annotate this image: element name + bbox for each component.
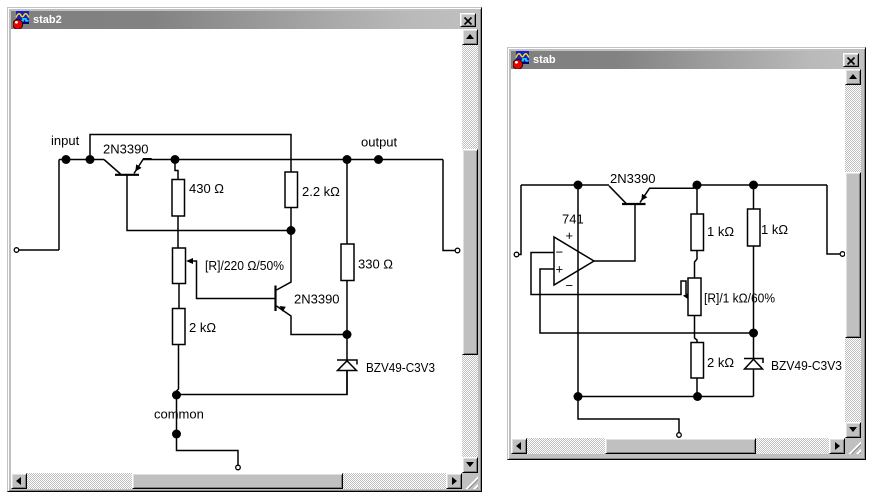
svg-text:BZV49-C3V3: BZV49-C3V3: [366, 360, 435, 375]
label Q3 2N3390: [610, 171, 656, 186]
node rail dot B: [693, 392, 702, 401]
resistor R3 2.2k: [285, 172, 298, 231]
wire supply drop through op-amp: [577, 185, 579, 397]
wire op-amp output to Q3 base: [594, 205, 635, 262]
node 430 top dot: [171, 155, 180, 164]
label 2k: [707, 355, 734, 370]
label pot R: [704, 291, 775, 306]
svg-text:[R]/220 Ω/50%: [R]/220 Ω/50%: [205, 258, 284, 273]
vertical scrollbar: [462, 29, 478, 473]
svg-text:2 kΩ: 2 kΩ: [707, 355, 734, 370]
svg-text:430 Ω: 430 Ω: [189, 181, 224, 196]
svg-text:common: common: [154, 407, 204, 422]
resistor R5 330 ohm: [341, 160, 354, 335]
vertical scrollbar: [845, 69, 861, 438]
resistor R2 430 ohm: [172, 160, 185, 249]
svg-text:2N3390: 2N3390: [610, 171, 656, 186]
wire output drop: [443, 160, 455, 251]
window stab frame: [507, 47, 866, 460]
wire inverting input lead: [531, 253, 686, 295]
wire ground stub: [578, 397, 679, 433]
svg-text:330 Ω: 330 Ω: [358, 257, 393, 272]
label pot R: [205, 258, 284, 273]
common terminal: [236, 465, 241, 470]
wire ground stub: [177, 434, 239, 465]
wire top loop from node B to 2.2k top: [90, 135, 291, 173]
label output: [361, 135, 398, 150]
label non-inverting input: [556, 262, 564, 277]
svg-text:−: −: [556, 245, 564, 260]
circuit svg left: [11, 29, 462, 472]
label 430 ohm: [189, 181, 224, 196]
ground terminal: [677, 433, 682, 438]
resistor R4 2k: [691, 343, 704, 397]
transistor Q2 2N3390: [276, 231, 348, 335]
svg-text:+: +: [566, 228, 574, 243]
label 741: [562, 212, 584, 227]
svg-text:[R]/1 kΩ/60%: [R]/1 kΩ/60%: [704, 291, 775, 306]
wire Q1 base lead: [127, 175, 291, 231]
svg-text:BZV49-C3V3: BZV49-C3V3: [771, 358, 842, 373]
node common dot 2: [172, 430, 181, 439]
svg-text:2 kΩ: 2 kΩ: [189, 320, 216, 335]
zener D1 BZV49-C3V3: [337, 335, 357, 395]
node 1k-1 dot: [693, 181, 702, 190]
svg-text:−: −: [566, 278, 574, 293]
node output dot B: [374, 155, 383, 164]
node input dot A: [62, 155, 71, 164]
wire common drop: [176, 395, 178, 434]
potentiometer R1 220 ohm: [173, 248, 276, 309]
svg-text:741: 741: [562, 212, 584, 227]
node 1k-2 dot: [749, 181, 758, 190]
wire top rail: [521, 184, 609, 186]
wire input riser: [58, 160, 60, 251]
node input dot B: [86, 155, 95, 164]
node supply dot: [574, 181, 583, 190]
label zener D1: [366, 360, 435, 375]
input terminal: [514, 252, 519, 257]
svg-text:2.2 kΩ: 2.2 kΩ: [302, 184, 340, 199]
node output dot A: [343, 155, 352, 164]
label 2k: [189, 320, 216, 335]
svg-text:+: +: [556, 262, 564, 277]
wire input rail to Q1 collector: [59, 159, 104, 161]
wire Q1 emitter rail: [144, 159, 444, 161]
transistor Q3 2N3390: [609, 185, 694, 204]
label Q2 2N3390: [294, 292, 340, 307]
wire input stub: [519, 185, 521, 255]
wire top rail right part: [697, 184, 827, 186]
label 2.2k: [302, 184, 340, 199]
wire non-inverting input lead: [540, 269, 754, 333]
label zener: [771, 358, 842, 373]
input terminal: [14, 248, 19, 253]
svg-text:output: output: [361, 135, 398, 150]
transistor Q1 2N3390: [104, 159, 151, 175]
op-amp U1 741: [554, 237, 594, 285]
svg-text:1 kΩ: 1 kΩ: [761, 222, 788, 237]
circuit svg right: [511, 69, 845, 440]
label common: [154, 407, 204, 422]
label input: [51, 133, 80, 148]
svg-text:input: input: [51, 133, 80, 148]
wire input stub to riser: [19, 249, 59, 251]
label Q1 2N3390: [103, 142, 149, 157]
node rail dot A: [574, 392, 583, 401]
node base dot: [287, 226, 296, 235]
svg-text:2N3390: 2N3390: [103, 142, 149, 157]
resistor R3 1k: [748, 185, 761, 333]
horizontal scrollbar: [11, 473, 462, 489]
label op-amp V minus: [566, 278, 574, 293]
label 1k second: [761, 222, 788, 237]
svg-text:1 kΩ: 1 kΩ: [707, 224, 734, 239]
svg-text:2N3390: 2N3390: [294, 292, 340, 307]
wiper arrow into pot: [683, 293, 689, 300]
label inverting input: [556, 245, 564, 260]
node 330 bottom dot: [343, 330, 352, 339]
resistor R4 2k: [173, 309, 186, 396]
output terminal: [840, 252, 845, 257]
label 330 ohm: [358, 257, 393, 272]
zener D1 BZV49-C3V3: [744, 333, 763, 397]
wire output drop: [827, 185, 840, 254]
node zener top dot: [749, 329, 758, 338]
wire bottom rail: [578, 396, 754, 398]
label op-amp V plus: [566, 228, 574, 243]
node common dot: [172, 391, 181, 400]
window stab2 frame: [7, 7, 482, 492]
horizontal scrollbar: [511, 438, 845, 454]
potentiometer R2 1k: [688, 278, 701, 343]
wire common rail: [177, 371, 348, 395]
output terminal: [455, 248, 460, 253]
label 1k first: [707, 224, 734, 239]
resistor R1 1k: [691, 185, 704, 278]
